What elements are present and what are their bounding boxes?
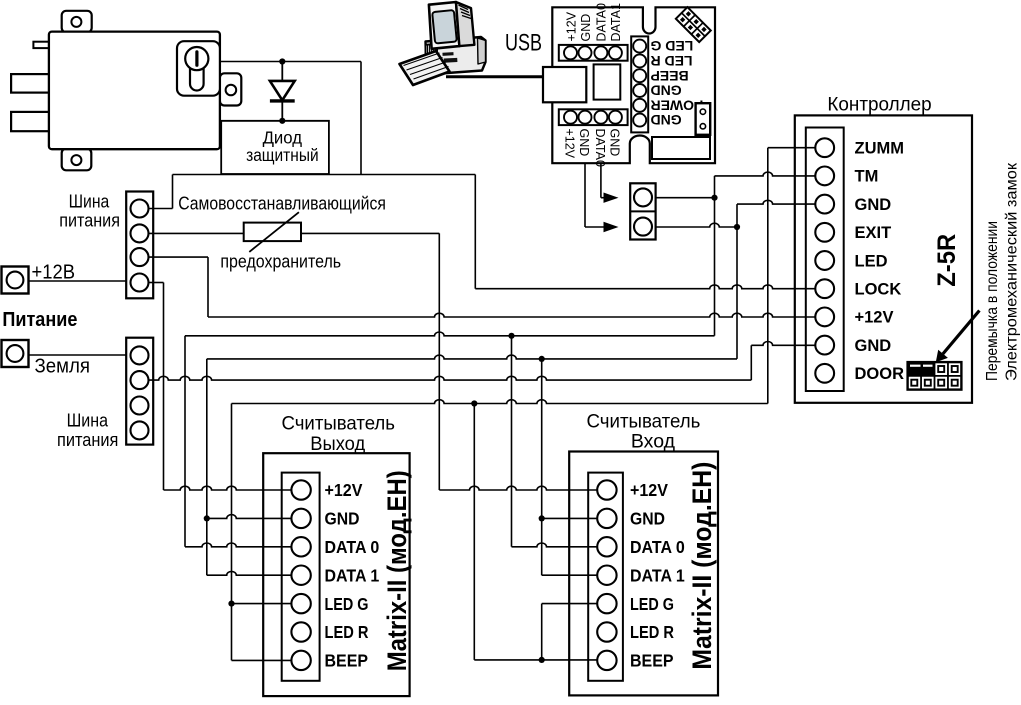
wire reader2 DATA0 [512, 543, 602, 547]
svg-text:GND: GND [630, 509, 665, 529]
svg-text:LED R: LED R [630, 622, 674, 642]
usb pin header 2x3 [676, 7, 711, 42]
svg-text:Электромеханический замок: Электромеханический замок [1004, 162, 1021, 381]
reader exit pin GND [291, 509, 310, 528]
wire ZUMM net horizontal [232, 400, 768, 404]
controller box [795, 115, 972, 402]
svg-text:GND: GND [577, 129, 591, 157]
junction ZUMM reader2 branch [471, 400, 477, 406]
wire to controller ZUMM [768, 147, 820, 149]
reader entry pin GND [597, 509, 616, 528]
lock pin small [33, 42, 49, 48]
svg-text:+12V: +12V [630, 480, 668, 500]
svg-text:EXIT: EXIT [855, 224, 892, 242]
reader exit pin LED G [291, 594, 310, 613]
svg-text:BEEP: BEEP [630, 651, 674, 671]
controller pin TM [815, 167, 834, 186]
junction reader2 BEEP / LED G tie [539, 657, 545, 663]
usb adapter board [552, 7, 715, 163]
svg-text:GND: GND [855, 196, 892, 214]
power bus upper terminal 3 [131, 248, 149, 266]
power bus upper terminal 4 [131, 274, 149, 292]
wire block lower to GND net [656, 223, 737, 227]
svg-text:Шина: Шина [67, 411, 109, 431]
wire block upper to TM net [656, 197, 715, 199]
usb connector [543, 67, 586, 102]
controller pin ZUMM [815, 138, 834, 157]
power bus lower block [126, 338, 153, 445]
junction TM net / USB DATA0 [711, 195, 717, 201]
controller pin LOCK [815, 279, 834, 298]
svg-text:Перемычка в положении: Перемычка в положении [984, 221, 1001, 381]
wire to controller TM [715, 172, 821, 176]
svg-text:USB: USB [505, 30, 542, 57]
power bus upper terminal 1 [131, 200, 149, 218]
junction reader1 GND tap [204, 515, 210, 521]
wire bus t2 to fuse [149, 232, 244, 234]
svg-text:+12V: +12V [855, 309, 894, 327]
wire reader2 DATA1 [542, 574, 601, 576]
svg-text:LED G: LED G [650, 38, 693, 54]
usb top pin row [559, 45, 628, 61]
svg-text:LED R: LED R [651, 53, 693, 69]
svg-text:Вход: Вход [631, 431, 676, 453]
controller pin GND [815, 336, 834, 355]
terminal +12V input [2, 267, 29, 294]
svg-text:GND: GND [608, 129, 622, 157]
arrow to block lower [604, 222, 619, 232]
wire reader1 GND [207, 515, 296, 519]
controller pin GND [815, 195, 834, 214]
reader exit strip [282, 473, 320, 681]
usb middle chip [594, 64, 621, 99]
svg-text:+12V: +12V [564, 11, 578, 41]
svg-text:DATA0: DATA0 [595, 3, 609, 41]
fuse self-resetting [244, 223, 301, 242]
wire GND bus to controller GND [149, 376, 752, 380]
lock mounting tab bottom [62, 149, 92, 171]
reader exit pin BEEP [291, 651, 310, 670]
wire reader2 BEEP [474, 659, 601, 661]
wire to controller LOCK [475, 285, 820, 289]
reader entry pin DATA 0 [597, 537, 616, 556]
lock cylinder tail [190, 60, 204, 91]
svg-text:Matrix-II (мод.ЕН): Matrix-II (мод.ЕН) [382, 470, 412, 671]
lock mounting tab right [220, 73, 241, 105]
controller pin EXIT [815, 223, 834, 242]
svg-text:Matrix-II (мод.ЕН): Matrix-II (мод.ЕН) [687, 462, 717, 670]
svg-text:Самовосстанавливающийся: Самовосстанавливающийся [178, 193, 386, 213]
junction GND reader2 branch [539, 356, 545, 362]
power bus upper terminal 2 [131, 224, 149, 242]
usb bottom right rect [652, 137, 710, 159]
svg-text:LED G: LED G [325, 594, 369, 614]
arrow to jumper [943, 311, 980, 354]
svg-text:DATA0: DATA0 [593, 129, 607, 167]
svg-text:питания: питания [59, 211, 120, 231]
wire TM/DATA0 net horizontal [185, 332, 715, 336]
junction diode cathode [279, 118, 285, 124]
svg-text:Считыватель: Считыватель [282, 412, 396, 434]
power bus lower terminal 1 [131, 346, 149, 364]
svg-text:+12V: +12V [325, 480, 363, 500]
svg-text:DATA 0: DATA 0 [325, 537, 380, 557]
wire reader1 DATA1 [207, 571, 296, 575]
lock bolt 1 [11, 74, 49, 93]
usb 2-hole connector [696, 103, 711, 135]
wire lock top to diode anode and down [220, 61, 361, 63]
svg-text:BEEP: BEEP [325, 651, 369, 671]
controller pin LED [815, 251, 834, 270]
svg-text:DATA 1: DATA 1 [325, 565, 380, 585]
wire GND net horizontal [207, 355, 737, 359]
svg-text:GND: GND [579, 14, 593, 42]
lock mounting tab top [62, 11, 92, 33]
2-pin terminal block [630, 183, 655, 239]
wire +12V input to bus [29, 280, 127, 282]
svg-text:Земля: Земля [35, 356, 91, 378]
reader exit pin DATA 1 [291, 566, 310, 585]
reader entry box [569, 452, 718, 696]
controller pin DOOR [815, 364, 834, 383]
svg-text:LED: LED [855, 252, 888, 270]
svg-text:Шина: Шина [69, 192, 111, 212]
svg-text:GND: GND [651, 112, 682, 128]
power bus lower terminal 3 [131, 397, 149, 415]
reader entry pin +12V [597, 480, 616, 499]
svg-text:Z-5R: Z-5R [933, 234, 961, 287]
label box diod [221, 121, 329, 174]
svg-text:GND: GND [651, 83, 682, 99]
diode VD protective [270, 62, 295, 121]
junction GND net / USB GND [734, 224, 740, 230]
svg-text:GND: GND [855, 337, 892, 355]
svg-text:ZUMM: ZUMM [855, 140, 904, 158]
wire USB GND down [584, 117, 586, 227]
usb bottom pin row [559, 109, 628, 125]
reader entry pin LED R [597, 622, 616, 641]
lock bolt 2 [11, 112, 49, 131]
wire fuse to reader2 +12V [301, 232, 439, 234]
svg-text:+12V: +12V [563, 129, 577, 159]
svg-text:LED R: LED R [325, 622, 369, 642]
power bus lower terminal 4 [131, 421, 149, 439]
lock cylinder [185, 47, 208, 70]
svg-text:защитный: защитный [246, 145, 319, 165]
wire reader1 DATA0 [185, 543, 296, 547]
power bus upper block [126, 192, 153, 299]
svg-text:GND: GND [325, 509, 360, 529]
terminal GND input [2, 340, 29, 367]
svg-text:предохранитель: предохранитель [220, 252, 341, 272]
wire bus t4 to reader1 +12V [149, 282, 164, 284]
wire +12V bus to lock net [149, 208, 173, 210]
reader entry pin DATA 1 [597, 566, 616, 585]
svg-text:BEEP: BEEP [651, 68, 689, 84]
junction diode anode [279, 58, 285, 64]
wire reader2 GND [542, 517, 601, 519]
wire reader1 LED G [232, 603, 297, 605]
svg-text:Питание: Питание [2, 309, 77, 331]
controller terminal strip [806, 128, 844, 392]
jumper block [908, 362, 962, 390]
wire reader2 LED G [541, 604, 543, 660]
reader exit pin +12V [291, 480, 310, 499]
svg-text:DATA1: DATA1 [609, 3, 623, 41]
svg-text:DATA 0: DATA 0 [630, 537, 685, 557]
arrow to block upper [604, 193, 619, 203]
controller pin +12V [815, 308, 834, 327]
junction reader2 GND tap [539, 515, 545, 521]
lock body [49, 32, 220, 150]
wire lock bottom to diode cathode [220, 120, 329, 122]
junction reader1 LED G tap [228, 601, 234, 607]
reader entry strip [588, 473, 623, 681]
svg-text:питания: питания [57, 430, 118, 450]
usb right connector strip [631, 36, 648, 132]
wire reader2 +12V [439, 486, 601, 490]
wire vertical diode net down [360, 62, 362, 175]
reader exit box [263, 453, 409, 696]
lock right tab hole [226, 85, 237, 96]
wire reader1 BEEP [232, 659, 297, 661]
reader exit pin DATA 0 [291, 537, 310, 556]
wire reader1 +12V [164, 486, 297, 490]
svg-text:Контроллер: Контроллер [827, 95, 931, 116]
lock keyhole slot [195, 50, 198, 67]
reader exit pin LED R [291, 622, 310, 641]
reader entry pin LED G [597, 594, 616, 613]
wire GND input to bus [29, 354, 127, 356]
svg-text:Считыватель: Считыватель [587, 411, 701, 433]
computer icon [400, 2, 544, 85]
power bus lower terminal 2 [131, 371, 149, 389]
svg-text:LOCK: LOCK [855, 281, 902, 299]
wire USB DATA0 down [600, 117, 602, 198]
reader entry pin BEEP [597, 651, 616, 670]
svg-text:Выход: Выход [310, 433, 365, 455]
lock key plate [177, 41, 220, 95]
jumper cap (closed position) [908, 362, 935, 376]
wire bus t3 to controller +12V [149, 256, 209, 258]
wire diode net to LOCK terminal vertical [474, 175, 476, 289]
junction DATA0 reader2 branch [508, 333, 514, 339]
svg-text:LED G: LED G [630, 594, 674, 614]
wire to controller GND [737, 200, 820, 204]
svg-text:TM: TM [855, 168, 879, 186]
svg-text:DOOR: DOOR [855, 365, 905, 383]
svg-text:DATA 1: DATA 1 [630, 565, 685, 585]
